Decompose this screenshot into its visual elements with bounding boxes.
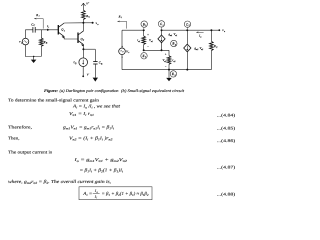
svg-text:m1: m1	[170, 34, 172, 37]
svg-text:(a) Darlington pair configurat: (a) Darlington pair configuration	[60, 88, 119, 93]
svg-text:...(4.84): ...(4.84)	[217, 112, 236, 117]
svg-text:m2: m2	[196, 48, 198, 51]
svg-text:π2: π2	[164, 60, 166, 63]
svg-text:...(4.85): ...(4.85)	[217, 126, 236, 131]
svg-text:1: 1	[64, 29, 65, 32]
svg-text:s: s	[21, 41, 22, 44]
svg-text:π1: π1	[138, 40, 140, 43]
svg-text:Therefore,: Therefore,	[8, 124, 32, 129]
svg-text:(b) Small-signal equivalent ci: (b) Small-signal equivalent circuit	[121, 88, 185, 93]
svg-text:π2: π2	[201, 48, 203, 51]
svg-text:The output current is: The output current is	[8, 149, 52, 154]
svg-text:To determine the small-signal: To determine the small-signal current ga…	[8, 97, 100, 102]
svg-text:π1: π1	[175, 34, 177, 37]
svg-text:1: 1	[145, 56, 146, 59]
svg-text:Figure:: Figure:	[44, 88, 59, 93]
svg-text:...(4.86): ...(4.86)	[217, 138, 236, 143]
svg-text:1: 1	[163, 24, 164, 27]
svg-text:...(4.87): ...(4.87)	[217, 165, 236, 170]
svg-text:...(4.88): ...(4.88)	[217, 191, 236, 196]
svg-text:Then,: Then,	[8, 135, 20, 140]
svg-text:π2: π2	[173, 60, 175, 63]
svg-text:π1: π1	[151, 40, 153, 43]
svg-text:1: 1	[145, 24, 146, 27]
svg-text:s: s	[128, 51, 129, 54]
